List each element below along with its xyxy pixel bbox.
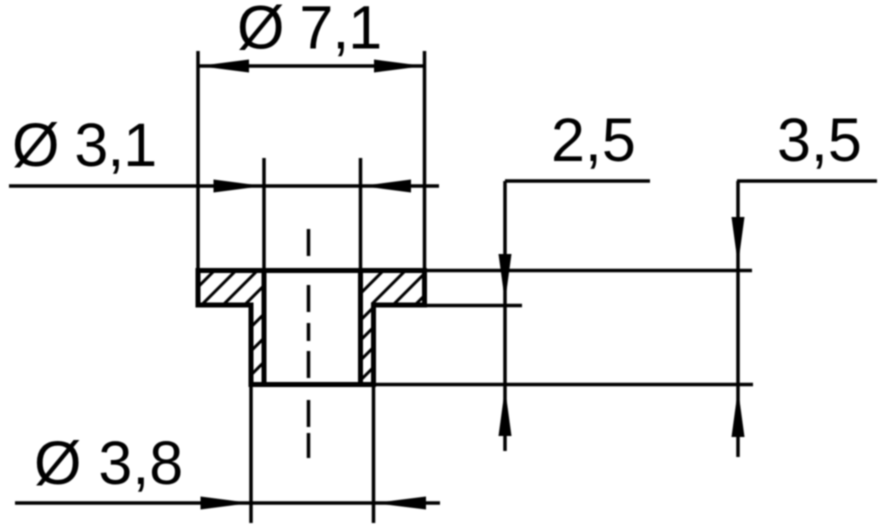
dimension line 3,5 vertical with arrows xyxy=(732,181,745,457)
svg-text:2,5: 2,5 xyxy=(551,106,636,174)
svg-text:3,5: 3,5 xyxy=(777,106,862,174)
svg-text:Ø 7,1: Ø 7,1 xyxy=(237,0,381,62)
extension line flange left xyxy=(196,51,200,270)
extension line flange top to 3,5 xyxy=(425,269,753,273)
centerline xyxy=(307,229,311,458)
svg-text:Ø 3,1: Ø 3,1 xyxy=(12,111,156,179)
extension line barrel bottom to 3,5 xyxy=(374,383,754,387)
hatching barrel wall left xyxy=(250,312,266,399)
hole edge right xyxy=(358,268,363,387)
extension line flange bottom to 2,5 xyxy=(425,304,523,308)
hatching flange right xyxy=(348,270,450,306)
dimension text Ø 7,1 xyxy=(237,0,381,62)
extension line flange right xyxy=(423,51,427,270)
flange outline xyxy=(196,268,427,308)
dimension text 3,5 xyxy=(777,106,862,174)
extension line hole right xyxy=(359,158,363,270)
dimension line 2,5 vertical with arrows xyxy=(499,181,512,451)
svg-text:Ø 3,8: Ø 3,8 xyxy=(34,429,183,497)
hatching flange left xyxy=(179,270,301,306)
dimension line Ø7,1 with arrows xyxy=(198,60,425,73)
extension line hole left xyxy=(262,158,266,270)
extension line barrel left down xyxy=(249,386,253,523)
leader line 2,5 xyxy=(505,179,650,183)
dimension line Ø3,1 with arrows xyxy=(9,180,439,193)
hatching barrel wall right xyxy=(359,306,375,382)
leader line 3,5 xyxy=(737,179,877,183)
hole edge left xyxy=(262,268,267,387)
dimension line Ø3,8 with arrows xyxy=(15,497,440,510)
dimension text Ø 3,8 xyxy=(34,429,183,497)
dimension text Ø 3,1 xyxy=(12,111,156,179)
extension line barrel right down xyxy=(372,386,376,523)
barrel outline xyxy=(249,303,377,387)
dimension text 2,5 xyxy=(551,106,636,174)
